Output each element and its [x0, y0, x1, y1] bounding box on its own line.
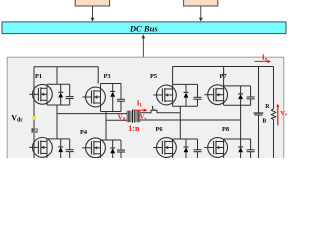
wire P1 top leg [56, 67, 58, 85]
transistor P7 (MOSFET) [204, 85, 227, 106]
diode D1 (anti-parallel) [58, 84, 63, 105]
node Vo output voltage arrow [276, 104, 279, 126]
diode D7 (anti-parallel) [238, 86, 243, 105]
wire primary bridge top rail [34, 66, 99, 68]
diode D2 (anti-parallel) [58, 139, 63, 160]
wire P8 group top rail [224, 138, 251, 140]
svg-text:P2: P2 [31, 128, 38, 135]
wire P7 group bottom rail [224, 104, 251, 106]
transformer T1 core [133, 110, 135, 123]
node junction dot (yellow) on left rail [32, 116, 36, 120]
block: converter panel background [7, 57, 284, 161]
wire leg C midpoint (P5-P6) [179, 106, 181, 139]
wire P2 group top rail [47, 138, 70, 140]
capacitor C5 (snubber) [194, 84, 202, 106]
transistor P3 (MOSFET) [82, 84, 105, 112]
wire secondary top lead with series inductor [140, 110, 181, 113]
capacitor Co (output filter) [254, 113, 264, 115]
wire IL arrow [133, 109, 147, 112]
svg-text:P8: P8 [222, 126, 229, 133]
wire arrow from box2 to DC bus [199, 6, 203, 22]
svg-text:P4: P4 [80, 129, 88, 136]
svg-text:L: L [152, 105, 156, 111]
wire P5 group top rail [173, 83, 198, 85]
svg-text:P3: P3 [104, 73, 111, 80]
diode D8 (anti-parallel) [238, 139, 243, 160]
svg-text:P1: P1 [35, 73, 42, 80]
wire secondary bottom lead [140, 119, 241, 121]
svg-text:P7: P7 [220, 73, 228, 80]
wire P4 group top rail [101, 139, 122, 141]
svg-text:1:n: 1:n [128, 124, 140, 133]
wire P7 group top rail [224, 85, 251, 87]
diode D6 (anti-parallel) [184, 139, 189, 160]
capacitor C4 (snubber) [117, 140, 125, 160]
wire leg A midpoint (P1-P2) [56, 105, 58, 139]
svg-text:P5: P5 [150, 73, 157, 80]
wire P1 group bottom rail [47, 104, 70, 106]
svg-text:B: B [262, 119, 266, 125]
wire primary winding top lead [57, 113, 127, 115]
wire Io arrow [255, 60, 272, 63]
wire P3 group bottom rail [101, 111, 122, 113]
block: controller box 2 (top, cut off) [184, 0, 218, 6]
transistor P5 (MOSFET) [153, 84, 176, 106]
wire P6 group top rail [173, 138, 198, 140]
capacitor C1 (snubber) [66, 84, 74, 105]
block: controller box 1 (top, cut off) [75, 0, 109, 6]
capacitor C3 (snubber) [117, 84, 125, 112]
transformer T1 primary winding [127, 111, 131, 123]
diode D4 (anti-parallel) [110, 140, 115, 160]
svg-text:Vo: Vo [280, 110, 288, 117]
wire arrow from box1 to DC bus [91, 6, 95, 22]
wire primary winding bottom lead [106, 119, 127, 121]
svg-text:DC Bus: DC Bus [129, 23, 159, 33]
wire output capacitor branch [258, 67, 260, 159]
capacitor C8 (snubber) [247, 139, 255, 160]
wire leg B midpoint (P3-P4) [105, 112, 107, 141]
wire leg D midpoint (P7-P8) [240, 105, 242, 139]
capacitor C2 (snubber) [66, 139, 74, 160]
wire left DC rail [33, 67, 35, 158]
transistor P2 (MOSFET) [29, 138, 52, 161]
svg-text:P6: P6 [156, 126, 164, 133]
wire P1 group top rail [47, 83, 70, 85]
node DC Bus (bus bar) [2, 22, 286, 34]
transistor P4 (MOSFET) [82, 138, 105, 160]
wire P5 top leg [172, 67, 174, 85]
wire arrow DC bus to converter panel [142, 34, 146, 60]
transistor P1 (MOSFET) [29, 84, 52, 105]
diode D5 (anti-parallel) [184, 84, 189, 106]
wire P5 group bottom rail [173, 105, 198, 107]
diode D3 (anti-parallel) [110, 84, 115, 112]
wire P7 top leg [223, 67, 225, 86]
transistor P6 (MOSFET) [153, 138, 176, 160]
capacitor C6 (snubber) [194, 139, 202, 160]
resistor R (load) [271, 109, 275, 120]
capacitor C7 (snubber) [247, 86, 255, 105]
wire P3 group top rail [101, 83, 122, 85]
wire secondary bridge top rail [173, 66, 274, 68]
wire P3 top leg [97, 67, 99, 84]
wire load branch [273, 67, 275, 159]
transistor P8 (MOSFET) [204, 138, 227, 160]
transformer T1 secondary winding [136, 111, 140, 123]
